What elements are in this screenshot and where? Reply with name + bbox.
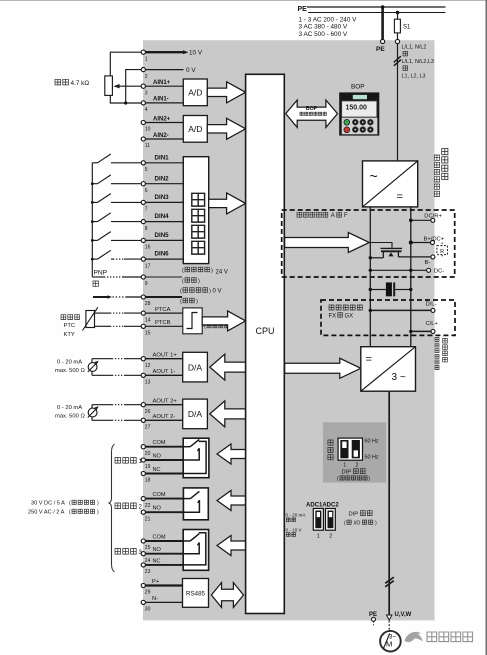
wire AOUT1+ to terminal xyxy=(92,358,112,360)
wire P+ to RS485 xyxy=(145,584,182,586)
wire potentiometer bottom to terminal4 xyxy=(110,95,141,103)
svg-text:1: 1 xyxy=(145,56,148,62)
terminal 10 xyxy=(141,120,145,124)
frame sizes FX GX dashed outline xyxy=(321,300,455,335)
relay 3 label xyxy=(115,549,136,555)
motor M 3-phase xyxy=(380,631,401,652)
multi-conductor slash marks on mains wire xyxy=(394,56,401,62)
svg-text:2: 2 xyxy=(145,74,148,80)
RS485 interface block xyxy=(183,579,209,608)
wire 0 V output xyxy=(145,69,183,71)
switch contact DIN5 xyxy=(92,239,97,241)
svg-text:5: 5 xyxy=(145,167,148,173)
wire N- to RS485 xyxy=(145,601,182,603)
svg-text:(: ( xyxy=(69,510,71,516)
relay 3 contact block xyxy=(183,530,208,571)
text frame sizes A to F xyxy=(297,212,328,217)
svg-text:I/O: I/O xyxy=(354,520,361,526)
junction on PE rail 2 xyxy=(396,11,400,15)
wire relay 2 NO xyxy=(145,511,183,513)
svg-text:BOP: BOP xyxy=(306,106,318,112)
svg-text:3: 3 xyxy=(145,90,148,96)
wire +10 V output xyxy=(145,51,183,53)
wire DIN common bus xyxy=(91,163,93,277)
PTC threshold block xyxy=(183,308,202,334)
svg-text:9: 9 xyxy=(145,281,148,287)
svg-text:150.00: 150.00 xyxy=(346,105,368,112)
switch contact DIN1 xyxy=(92,162,97,164)
wire terminal1 to potentiometer top xyxy=(110,52,141,76)
terminal DC- xyxy=(370,269,426,271)
svg-text:(: ( xyxy=(180,299,182,305)
junction on PE rail 1 xyxy=(381,5,385,9)
svg-text:): ) xyxy=(211,268,213,274)
wire relay 1 COM xyxy=(145,446,183,448)
terminal 7 xyxy=(141,200,145,204)
wire relay 3 COM xyxy=(145,540,183,542)
relay 2 contact block xyxy=(183,488,208,520)
signal arrow CPU to D/A 1 xyxy=(210,354,246,380)
signal arrow CPU to brake chopper xyxy=(285,233,370,253)
relay 1 label xyxy=(115,458,136,464)
wire relay 3 NC xyxy=(145,564,183,566)
wire DIN1 to opto-isolation xyxy=(145,162,183,164)
svg-text:17: 17 xyxy=(145,263,151,269)
svg-text:max. 500 Ω: max. 500 Ω xyxy=(55,413,85,419)
A/D converter 2 xyxy=(183,116,207,143)
CPU block xyxy=(246,74,285,613)
wire DIN2 to opto-isolation xyxy=(145,183,183,185)
svg-text:max. 500 Ω: max. 500 Ω xyxy=(55,368,85,374)
signal arrow CPU to D/A 2 xyxy=(210,401,246,427)
A/D converter 1 xyxy=(183,79,207,106)
svg-text:7: 7 xyxy=(145,207,148,213)
svg-text:3 ~: 3 ~ xyxy=(392,372,406,383)
relay 2 label xyxy=(115,503,136,509)
svg-text:A/D: A/D xyxy=(188,124,202,134)
svg-text:3 AC 380 - 480 V: 3 AC 380 - 480 V xyxy=(299,24,348,31)
text or (PNP alternative) xyxy=(93,281,98,286)
svg-text:D/A: D/A xyxy=(188,362,203,372)
inverter enclosure background panel xyxy=(143,40,435,620)
terminal 3 xyxy=(141,84,145,88)
svg-text:B-: B- xyxy=(425,260,431,266)
frame sizes A to F dashed outline xyxy=(282,210,455,277)
terminal 2 xyxy=(141,68,145,72)
wire DIN3 to opto-isolation xyxy=(145,201,183,203)
svg-text:PE: PE xyxy=(298,6,308,13)
svg-text:AIN2+: AIN2+ xyxy=(153,116,171,122)
arrowhead motor wire xyxy=(387,615,392,620)
svg-text:30 V DC / 5 A: 30 V DC / 5 A xyxy=(31,501,65,507)
signal arrow opto-isolation to CPU xyxy=(209,193,246,214)
svg-text:S1: S1 xyxy=(403,25,411,31)
terminal 29 xyxy=(141,583,145,587)
terminal 8 xyxy=(141,220,145,224)
watermark logo xyxy=(405,632,423,642)
watermark text xyxy=(427,632,473,642)
wire AIN1+ to A/D xyxy=(145,85,183,87)
terminal 20 xyxy=(141,445,145,449)
ammeter load output 2 xyxy=(91,405,93,421)
wire to motor (dashed) xyxy=(388,621,390,631)
terminal 30 xyxy=(141,600,145,604)
svg-text:8: 8 xyxy=(145,226,148,232)
svg-text:=: = xyxy=(397,191,403,203)
terminal 25 xyxy=(141,539,145,543)
wire DIN6 to terminal xyxy=(111,258,113,260)
terminal DC/R+ xyxy=(411,219,431,221)
wire DIN5 to terminal xyxy=(111,239,141,241)
svg-text:0 - 20 mA: 0 - 20 mA xyxy=(57,405,82,411)
svg-text:250 V AC / 2 A: 250 V AC / 2 A xyxy=(28,510,65,516)
svg-text:28: 28 xyxy=(145,301,151,307)
wire chopper gate xyxy=(369,243,392,248)
wire fuse to line terminal xyxy=(397,33,399,40)
svg-text:0 - 20 mA: 0 - 20 mA xyxy=(57,360,82,366)
signal arrow CPU to inverter xyxy=(285,358,361,378)
svg-text:DIP: DIP xyxy=(342,469,352,475)
resistor R (braking resistor, external) xyxy=(437,246,448,255)
wire DC- rail xyxy=(410,207,412,347)
svg-text:FX: FX xyxy=(329,313,337,319)
potentiometer wiper wire to AIN1+ xyxy=(118,85,141,87)
wire PE rail 2 xyxy=(308,12,446,14)
svg-text:27: 27 xyxy=(145,425,151,431)
terminal L/L1 line input xyxy=(395,39,399,43)
svg-text:DIN2: DIN2 xyxy=(155,175,170,182)
svg-text:11: 11 xyxy=(145,143,150,149)
inverter block (DC to 3-phase AC) xyxy=(361,347,416,392)
capacitor DC link xyxy=(370,289,386,291)
svg-text:L1, L2, L3: L1, L2, L3 xyxy=(402,74,426,80)
svg-text:24: 24 xyxy=(145,558,151,564)
svg-text:1 - 3 AC 200 - 240 V: 1 - 3 AC 200 - 240 V xyxy=(299,16,358,23)
svg-text:26: 26 xyxy=(145,409,151,415)
svg-text:4: 4 xyxy=(145,107,148,113)
svg-text:DC/R+: DC/R+ xyxy=(424,214,442,220)
signal arrow RS485 to CPU (bidirectional) xyxy=(211,583,243,608)
svg-text:KTY: KTY xyxy=(64,332,75,338)
svg-text:4.7 kΩ: 4.7 kΩ xyxy=(71,80,90,87)
wire PTCA to terminal 14 xyxy=(95,312,111,314)
svg-text:): ) xyxy=(97,501,99,507)
text resistive load (PTC) xyxy=(202,325,205,327)
wire terminal 28 (isolated 0V) xyxy=(93,296,108,298)
svg-text:DIN4: DIN4 xyxy=(155,213,170,220)
svg-text:M: M xyxy=(386,639,392,648)
terminal 12 xyxy=(141,357,145,361)
wire inverter output U V W xyxy=(388,391,390,614)
svg-text:1: 1 xyxy=(317,534,320,540)
signal arrow A/D 1 to CPU xyxy=(207,82,245,103)
signal arrow CPU to relay 3 xyxy=(217,536,246,556)
svg-text:60 Hz: 60 Hz xyxy=(365,439,379,445)
signal arrow CPU to relay 2 xyxy=(217,491,246,511)
svg-text:DIN1: DIN1 xyxy=(155,154,170,161)
wire DIN6 to opto-isolation xyxy=(145,258,183,260)
svg-text:(: ( xyxy=(182,268,184,274)
svg-text:RS485: RS485 xyxy=(186,591,205,598)
svg-text:D/A: D/A xyxy=(188,409,203,419)
svg-text:D/L-: D/L- xyxy=(426,302,437,308)
switch contact DIN3 xyxy=(92,201,97,203)
wire relay 1 NO xyxy=(145,459,183,461)
svg-text:1: 1 xyxy=(343,463,346,469)
svg-text:19: 19 xyxy=(145,464,151,470)
switch contact DIN2 xyxy=(92,183,97,185)
wire chopper to terminal B- xyxy=(398,256,431,258)
wire terminal2 0V to AIN1- net xyxy=(126,70,142,103)
svg-text:): ) xyxy=(198,279,200,285)
svg-text:23: 23 xyxy=(145,569,151,575)
fuse S1 xyxy=(394,19,400,33)
svg-text:14: 14 xyxy=(145,317,151,323)
svg-text:L/L1, N/L2,L3: L/L1, N/L2,L3 xyxy=(402,59,434,65)
wire PE rail 1 xyxy=(307,6,446,8)
terminal 14 xyxy=(141,311,145,315)
svg-text:GX: GX xyxy=(345,313,354,319)
svg-text:PNP: PNP xyxy=(94,270,108,277)
svg-text:R: R xyxy=(440,249,444,255)
svg-text:AOUT 2-: AOUT 2- xyxy=(153,414,176,420)
svg-text:(: ( xyxy=(344,520,346,526)
svg-text:12: 12 xyxy=(145,363,151,369)
svg-text:=: = xyxy=(366,354,372,366)
svg-text:10 V: 10 V xyxy=(189,50,203,57)
svg-text:24 V: 24 V xyxy=(216,270,228,276)
terminal 9 xyxy=(141,275,145,279)
wire AIN1- to A/D xyxy=(145,102,183,104)
brace relay group xyxy=(109,444,115,572)
svg-text:50 Hz: 50 Hz xyxy=(365,455,379,461)
potentiometer body xyxy=(105,76,113,96)
terminal 16 xyxy=(141,238,145,242)
svg-text:(: ( xyxy=(69,501,71,507)
terminal 28 xyxy=(141,295,145,299)
svg-text:NO: NO xyxy=(153,506,162,512)
wire DIN3 to terminal xyxy=(111,201,141,203)
text external braking unit terminals (vertical) xyxy=(443,339,448,362)
D/A converter 1 xyxy=(183,352,208,382)
terminal 23 xyxy=(141,563,145,567)
multi-conductor slash marks on motor wire xyxy=(385,577,394,583)
switch contact DIN4 xyxy=(92,221,97,223)
svg-text:P+: P+ xyxy=(152,579,160,585)
signal arrow A/D 2 to CPU xyxy=(207,118,245,139)
svg-text:20: 20 xyxy=(145,451,151,457)
wire AOUT2+ to terminal xyxy=(92,404,112,406)
svg-text:18: 18 xyxy=(145,478,151,484)
terminal 27 xyxy=(141,418,145,422)
svg-text:AOUT 1-: AOUT 1- xyxy=(153,369,176,375)
terminal 18 xyxy=(141,471,145,475)
terminal 22 xyxy=(141,497,145,501)
svg-text:3 AC 500 - 600 V: 3 AC 500 - 600 V xyxy=(299,31,348,38)
svg-text:ADC1ADC2: ADC1ADC2 xyxy=(306,502,339,508)
wire AIN2- to A/D xyxy=(145,138,183,140)
terminal 5 xyxy=(141,161,145,165)
text frame sizes FX GX xyxy=(329,305,362,310)
wire PE drop conductor xyxy=(381,7,384,40)
terminal B+/DC+ xyxy=(411,242,431,244)
svg-text:AIN1-: AIN1- xyxy=(153,97,169,103)
svg-text:NO: NO xyxy=(153,453,162,459)
svg-text:0 - 10 V: 0 - 10 V xyxy=(286,527,303,532)
wire PTCB to terminal 15 xyxy=(95,325,111,327)
svg-text:C/L+: C/L+ xyxy=(426,321,439,327)
wire AOUT1- to terminal xyxy=(92,374,112,376)
svg-text:29: 29 xyxy=(145,590,151,596)
svg-text:AOUT 1+: AOUT 1+ xyxy=(153,353,178,359)
wire DC+ rail xyxy=(369,207,371,347)
svg-text:BOP: BOP xyxy=(351,83,365,90)
svg-text:L/L1, N/L2: L/L1, N/L2 xyxy=(402,45,427,51)
svg-text:2: 2 xyxy=(356,463,359,469)
wire chopper source to DC+ rail xyxy=(370,257,383,259)
signal arrow BOP serial link (bidirectional) xyxy=(286,100,338,127)
wire relay 3 NO xyxy=(145,553,183,555)
svg-text:B+/DC+: B+/DC+ xyxy=(424,237,445,243)
svg-text:0 V: 0 V xyxy=(186,67,196,74)
wire DIN4 to opto-isolation xyxy=(145,221,183,223)
terminal 13 xyxy=(141,373,145,377)
wire terminal 9 (PNP common) xyxy=(92,276,104,278)
svg-text:A: A xyxy=(331,213,335,219)
svg-text:30: 30 xyxy=(145,607,151,613)
wire relay 2 COM xyxy=(145,498,183,500)
svg-text:~: ~ xyxy=(370,168,378,184)
terminal 21 xyxy=(141,510,145,514)
svg-text:(: ( xyxy=(180,289,182,295)
svg-text:F: F xyxy=(344,213,348,219)
svg-text:DIN6: DIN6 xyxy=(155,251,170,258)
rectifier block (AC to DC) xyxy=(363,161,418,207)
signal arrow PTC to CPU xyxy=(202,311,245,331)
terminal C/L+ xyxy=(411,330,431,332)
svg-text:13: 13 xyxy=(145,380,151,386)
wire DIN2 to terminal xyxy=(111,183,141,185)
svg-text:NC: NC xyxy=(153,467,161,473)
svg-text:A/D: A/D xyxy=(188,88,202,98)
svg-text:AIN1+: AIN1+ xyxy=(153,80,171,86)
terminal PE (input) xyxy=(381,39,385,43)
svg-text:DIN3: DIN3 xyxy=(155,194,170,201)
svg-text:NC: NC xyxy=(153,558,161,564)
terminal 19 xyxy=(141,458,145,462)
junction 0V to AIN1- wire xyxy=(124,101,127,104)
transistor brake chopper (IGBT) xyxy=(381,247,403,249)
svg-text:21: 21 xyxy=(145,516,151,522)
svg-text:PTC: PTC xyxy=(64,323,76,329)
svg-text:0 V: 0 V xyxy=(213,289,222,295)
svg-text:NO: NO xyxy=(153,547,162,553)
svg-text:10: 10 xyxy=(145,127,151,133)
page right border xyxy=(485,0,487,655)
svg-text:): ) xyxy=(209,289,211,295)
wire mains input to rectifier xyxy=(397,44,399,161)
terminal 6 xyxy=(141,182,145,186)
svg-text:(: ( xyxy=(337,476,339,482)
terminal 24 xyxy=(141,552,145,556)
terminal 4 xyxy=(141,101,145,105)
wire AIN2+ to A/D xyxy=(145,122,183,124)
DIP switch box (frequency selection) xyxy=(323,422,386,482)
wire relay 1 NC xyxy=(145,473,183,475)
relay 1 contact block xyxy=(183,438,209,478)
svg-text:DIN5: DIN5 xyxy=(155,232,170,239)
svg-text:6: 6 xyxy=(145,188,148,194)
wire DIN5 to opto-isolation xyxy=(145,239,183,241)
terminal 1 xyxy=(141,50,145,54)
svg-text:COM: COM xyxy=(153,492,166,498)
terminal 15 xyxy=(141,324,145,328)
text terminals installed by manufacturer (vertical) xyxy=(442,149,448,180)
svg-text:PTCB: PTCB xyxy=(155,320,171,326)
switch contact DIN6 xyxy=(92,258,97,260)
svg-text:DC-: DC- xyxy=(434,269,444,275)
wire to fuse S1 xyxy=(397,13,399,20)
terminal 17 xyxy=(141,257,145,261)
svg-text:): ) xyxy=(368,476,370,482)
text motor PTC KTY xyxy=(61,315,80,320)
svg-text:AIN2-: AIN2- xyxy=(153,133,169,139)
svg-text:COM: COM xyxy=(153,440,166,446)
opto-isolation block xyxy=(183,157,208,264)
svg-text:(: ( xyxy=(182,279,184,285)
page top border xyxy=(0,0,487,2)
svg-text:AOUT 2+: AOUT 2+ xyxy=(153,399,178,405)
svg-text:COM: COM xyxy=(153,534,166,540)
svg-text:25: 25 xyxy=(145,545,151,551)
terminal D/L- xyxy=(370,309,431,311)
svg-text:15: 15 xyxy=(145,331,151,337)
thermistor PTC sensor xyxy=(86,311,95,328)
ammeter load output 1 xyxy=(91,359,93,376)
wire AOUT2- to terminal xyxy=(92,419,112,421)
terminal 26 xyxy=(141,403,145,407)
svg-text:DIP: DIP xyxy=(349,511,359,517)
svg-text:): ) xyxy=(375,520,377,526)
terminal 11 xyxy=(141,137,145,141)
svg-text:): ) xyxy=(196,299,198,305)
D/A converter 2 xyxy=(183,399,208,429)
svg-text:U,V,W: U,V,W xyxy=(395,612,412,618)
signal arrow CPU to relay 1 xyxy=(217,444,246,464)
svg-text:22: 22 xyxy=(145,503,151,509)
potentiometer R (min 4.7 kOhm) label xyxy=(55,79,68,85)
svg-text:2: 2 xyxy=(329,534,332,540)
svg-text:16: 16 xyxy=(145,245,151,251)
svg-text:): ) xyxy=(97,510,99,516)
svg-text:0 - 20 mA: 0 - 20 mA xyxy=(286,513,307,518)
svg-text:CPU: CPU xyxy=(255,326,274,336)
svg-text:PE: PE xyxy=(376,46,385,53)
wire DIN4 to terminal xyxy=(111,221,141,223)
svg-text:N-: N- xyxy=(152,596,158,602)
wire DIN1 to terminal xyxy=(111,162,141,164)
svg-text:PTCA: PTCA xyxy=(155,307,171,313)
